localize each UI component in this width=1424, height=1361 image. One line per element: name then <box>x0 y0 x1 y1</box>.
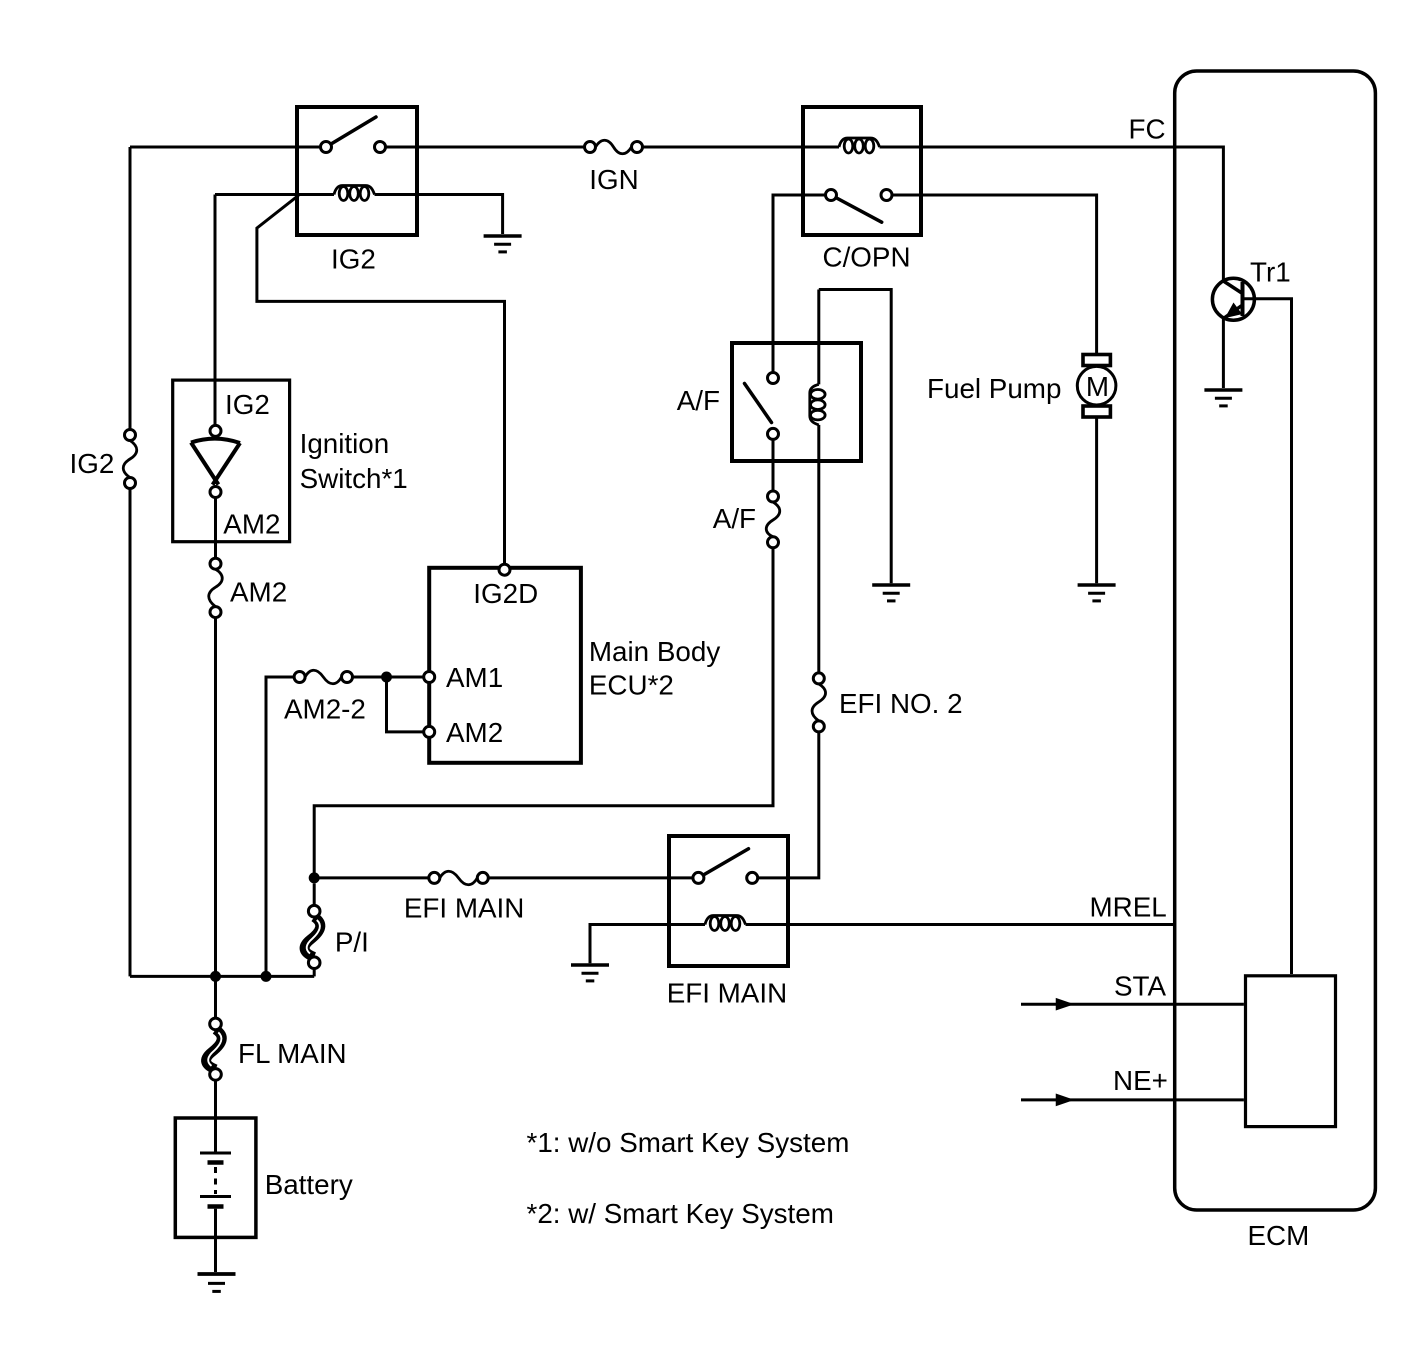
wire diagonal from relay to IG2D run <box>257 195 505 564</box>
fuse IGN <box>585 140 643 154</box>
junction dot P/I top <box>309 872 320 883</box>
svg-text:Ignition: Ignition <box>300 428 390 459</box>
wire left vertical rail upper <box>129 147 132 430</box>
relay EFI MAIN box <box>669 836 788 966</box>
wire IGN fuse to C/OPN coil <box>643 146 840 149</box>
ignition switch key symbol <box>191 425 240 497</box>
wire Tr1 base to STA box <box>1244 299 1292 974</box>
wire A/F fuse down and left to P/I junction <box>314 548 773 878</box>
relay IG2 switch lever <box>326 117 376 147</box>
svg-text:AM2: AM2 <box>230 577 287 608</box>
pin AM1 <box>424 672 435 683</box>
svg-text:EFI NO. 2: EFI NO. 2 <box>839 688 963 719</box>
relay EFI MAIN switch lever <box>698 849 748 878</box>
pin AM2 <box>424 726 435 737</box>
wire C/OPN left contact down to A/F relay <box>773 195 826 373</box>
svg-text:ECU*2: ECU*2 <box>589 669 674 700</box>
junction dot rail-AM2-2 <box>261 971 272 982</box>
wire A/F coil top to ground <box>819 290 891 584</box>
fuse AM2 <box>209 558 223 617</box>
fuse A/F <box>766 491 780 548</box>
battery box <box>175 1118 256 1237</box>
fuse EFI NO.2 <box>812 673 826 732</box>
wire AM2-2 left down to bottom rail <box>266 677 294 976</box>
relay IG2 coil wire right to ground <box>375 195 503 235</box>
wire C/OPN coil to ECM FC <box>880 147 1224 283</box>
svg-text:MREL: MREL <box>1090 892 1167 923</box>
wire Tr1 emitter to ground <box>1222 317 1225 389</box>
svg-text:FC: FC <box>1129 114 1166 145</box>
svg-text:AM2: AM2 <box>223 508 280 539</box>
relay C/OPN switch lever <box>831 195 882 222</box>
motor fuel pump <box>1077 355 1116 418</box>
svg-text:C/OPN: C/OPN <box>823 242 911 273</box>
relay C/OPN contacts <box>826 190 837 201</box>
wire EFI MAIN fuse to relay <box>488 876 693 879</box>
Main Body ECU box <box>429 568 581 763</box>
svg-text:Switch*1: Switch*1 <box>300 463 408 494</box>
svg-text:A/F: A/F <box>713 503 756 534</box>
arrow STA <box>1057 999 1073 1010</box>
svg-text:FL MAIN: FL MAIN <box>238 1038 347 1069</box>
svg-text:Battery: Battery <box>265 1169 353 1200</box>
svg-text:M: M <box>1086 371 1109 402</box>
wire A/F lower contact to fuse <box>772 439 775 491</box>
svg-text:ECM: ECM <box>1248 1220 1310 1251</box>
fuse IG2 <box>123 430 137 489</box>
relay IG2 coil wire left <box>215 193 334 196</box>
wire battery to ground <box>214 1209 217 1272</box>
svg-text:*1: w/o Smart Key System: *1: w/o Smart Key System <box>527 1127 850 1158</box>
relay EFI MAIN contacts <box>693 872 704 883</box>
wire junction to EFI MAIN fuse <box>314 876 429 879</box>
fusible link FL MAIN <box>206 1018 222 1080</box>
relay A/F switch lever <box>745 384 772 423</box>
battery cell symbol <box>200 1153 231 1207</box>
fuse AM2-2 <box>294 670 352 684</box>
svg-text:Tr1: Tr1 <box>1250 257 1291 288</box>
svg-text:AM2-2: AM2-2 <box>284 694 366 725</box>
relay EFI MAIN coil wire left to ground <box>590 925 705 964</box>
wire ignition switch to AM2 fuse <box>214 498 217 559</box>
wire IG2 relay to IGN fuse <box>386 146 585 149</box>
pin IG2D <box>499 564 510 575</box>
fuse EFI MAIN <box>429 871 489 885</box>
svg-text:IG2: IG2 <box>225 389 270 420</box>
svg-text:AM1: AM1 <box>446 662 503 693</box>
relay C/OPN coil <box>839 138 880 153</box>
wire FL MAIN to battery <box>214 1080 217 1151</box>
wire A/F coil bottom to EFI NO.2 fuse <box>817 425 820 673</box>
wire fuel pump to ground <box>1095 418 1098 584</box>
relay A/F coil (vertical) <box>810 384 825 425</box>
ground below IG2 relay <box>484 236 522 252</box>
wire STA with arrow <box>1021 1003 1244 1006</box>
ground below fuel pump <box>1078 585 1116 601</box>
svg-text:A/F: A/F <box>677 385 720 416</box>
svg-text:IGN: IGN <box>589 164 638 195</box>
ECM box <box>1175 71 1376 1210</box>
relay IG2 coil <box>334 186 375 201</box>
svg-text:IG2: IG2 <box>331 244 376 275</box>
wire AM2-2 right to AM1 pin <box>353 676 424 679</box>
ground below Tr1 <box>1204 390 1242 406</box>
svg-text:*2: w/ Smart Key System: *2: w/ Smart Key System <box>527 1198 834 1229</box>
ground below battery <box>198 1274 236 1291</box>
wire bottom rail <box>130 975 314 978</box>
relay C/OPN box <box>803 107 921 235</box>
ground below EFI MAIN coil <box>571 965 609 981</box>
wire junction to AM2 pin <box>387 677 424 732</box>
ignition switch box <box>173 380 290 542</box>
junction dot AM1 <box>381 672 392 683</box>
svg-text:NE+: NE+ <box>1113 1065 1168 1096</box>
svg-text:EFI MAIN: EFI MAIN <box>404 893 524 924</box>
STA/NE+ box in ECM <box>1246 976 1336 1127</box>
wire coil to ignition switch <box>214 195 217 426</box>
arrow NE+ <box>1057 1095 1073 1106</box>
svg-text:IG2D: IG2D <box>473 578 538 609</box>
svg-text:IG2: IG2 <box>70 448 115 479</box>
transistor Q Tr1 <box>1212 278 1254 320</box>
svg-text:Main Body: Main Body <box>589 636 720 667</box>
fusible link P/I <box>305 883 321 976</box>
junction dot rail-AM2 <box>210 971 221 982</box>
wire top-left horizontal to IG2 relay <box>130 146 321 149</box>
relay A/F box <box>732 343 861 461</box>
relay EFI MAIN coil <box>705 916 746 931</box>
relay IG2 box <box>297 107 417 235</box>
relay A/F contacts <box>768 373 779 384</box>
svg-text:EFI MAIN: EFI MAIN <box>667 978 787 1009</box>
relay A/F coil wire above <box>817 290 820 385</box>
wire MREL to ECM <box>746 923 1175 926</box>
wire NE+ with arrow <box>1021 1098 1244 1101</box>
svg-text:Fuel Pump: Fuel Pump <box>927 373 1061 404</box>
wire EFI NO.2 down to EFI MAIN relay contact <box>758 732 819 878</box>
wire left vertical rail lower <box>129 489 132 977</box>
svg-text:AM2: AM2 <box>446 717 503 748</box>
wire C/OPN right contact to fuel pump <box>892 195 1097 355</box>
svg-text:P/I: P/I <box>335 927 369 958</box>
ground below A/F coil <box>872 585 910 601</box>
relay IG2 contacts <box>321 142 332 153</box>
wire AM2 fuse down to bottom junction <box>214 618 217 1018</box>
svg-text:STA: STA <box>1114 971 1166 1002</box>
